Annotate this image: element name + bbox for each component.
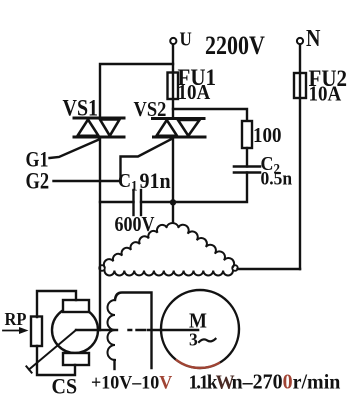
wire U down to VS2 — [172, 45, 174, 119]
VS2 gate lead — [121, 139, 173, 181]
wire VS2 down to choke — [172, 137, 174, 223]
svg-text:CS: CS — [52, 374, 78, 399]
svg-text:3: 3 — [189, 329, 198, 349]
svg-text:2200V: 2200V — [205, 31, 265, 60]
svg-text:N: N — [306, 24, 320, 51]
svg-text:G2: G2 — [26, 168, 50, 195]
RP arrow — [3, 330, 21, 332]
tacho winding coil — [108, 300, 115, 360]
choke winding base — [105, 271, 234, 276]
tacho winding frame — [115, 293, 152, 369]
wire N down — [299, 45, 301, 270]
junction node — [170, 199, 176, 205]
shaft line CS to winding — [76, 329, 117, 331]
CS top brush — [63, 300, 89, 312]
svg-text:U: U — [180, 28, 192, 49]
svg-text:VS2: VS2 — [134, 98, 167, 121]
triac VS1 — [74, 118, 124, 137]
svg-text:10A: 10A — [178, 81, 211, 104]
svg-text:RP: RP — [5, 309, 27, 329]
wire C2 down — [141, 173, 247, 203]
choke left end — [99, 265, 105, 271]
fuse FU2 — [294, 73, 306, 98]
tacho CS body — [52, 307, 98, 353]
wire choke to N — [238, 268, 301, 270]
RP top wire — [37, 291, 76, 317]
CS bottom brush — [63, 353, 89, 365]
tacho winding bottom lead — [113, 360, 115, 369]
svg-text:10A: 10A — [309, 83, 342, 106]
wire VS1 down — [99, 137, 101, 330]
gate wire G2 — [54, 180, 121, 182]
choke apex cap — [167, 223, 179, 227]
motor red bottom arc — [177, 360, 219, 368]
capacitor C2 — [234, 165, 260, 168]
svg-text:+10V–10V: +10V–10V — [91, 372, 173, 394]
wire y202 left — [100, 201, 134, 203]
fuse FU1 — [168, 73, 179, 100]
wire branch U to VS1 — [100, 64, 173, 118]
choke right end — [232, 265, 238, 271]
choke winding right slope — [179, 225, 235, 267]
svg-text:0.5n: 0.5n — [261, 168, 293, 189]
svg-text:n–2700r/min: n–2700r/min — [232, 371, 341, 394]
gate wire G1 — [50, 140, 100, 159]
resistor 100 — [242, 121, 252, 148]
wire branch to RC snubber — [173, 109, 247, 121]
terminal U — [170, 38, 176, 44]
svg-text:C1: C1 — [118, 170, 138, 193]
svg-text:91n: 91n — [140, 168, 171, 193]
wire to motor — [148, 329, 198, 332]
shaft dash-dot — [129, 329, 146, 331]
choke winding left slope — [104, 225, 167, 267]
svg-text:1.1kW: 1.1kW — [189, 371, 235, 394]
svg-text:VS1: VS1 — [63, 95, 99, 121]
wiper diagonal — [29, 330, 76, 370]
wire resistor to C2 — [246, 148, 248, 167]
RP bottom wire — [37, 346, 75, 375]
potentiometer RP — [31, 317, 42, 347]
triac VS2 — [153, 119, 206, 138]
capacitor C1 — [132, 190, 134, 215]
motor M circle — [161, 290, 239, 368]
svg-text:100: 100 — [253, 124, 282, 147]
terminal N — [297, 38, 303, 44]
